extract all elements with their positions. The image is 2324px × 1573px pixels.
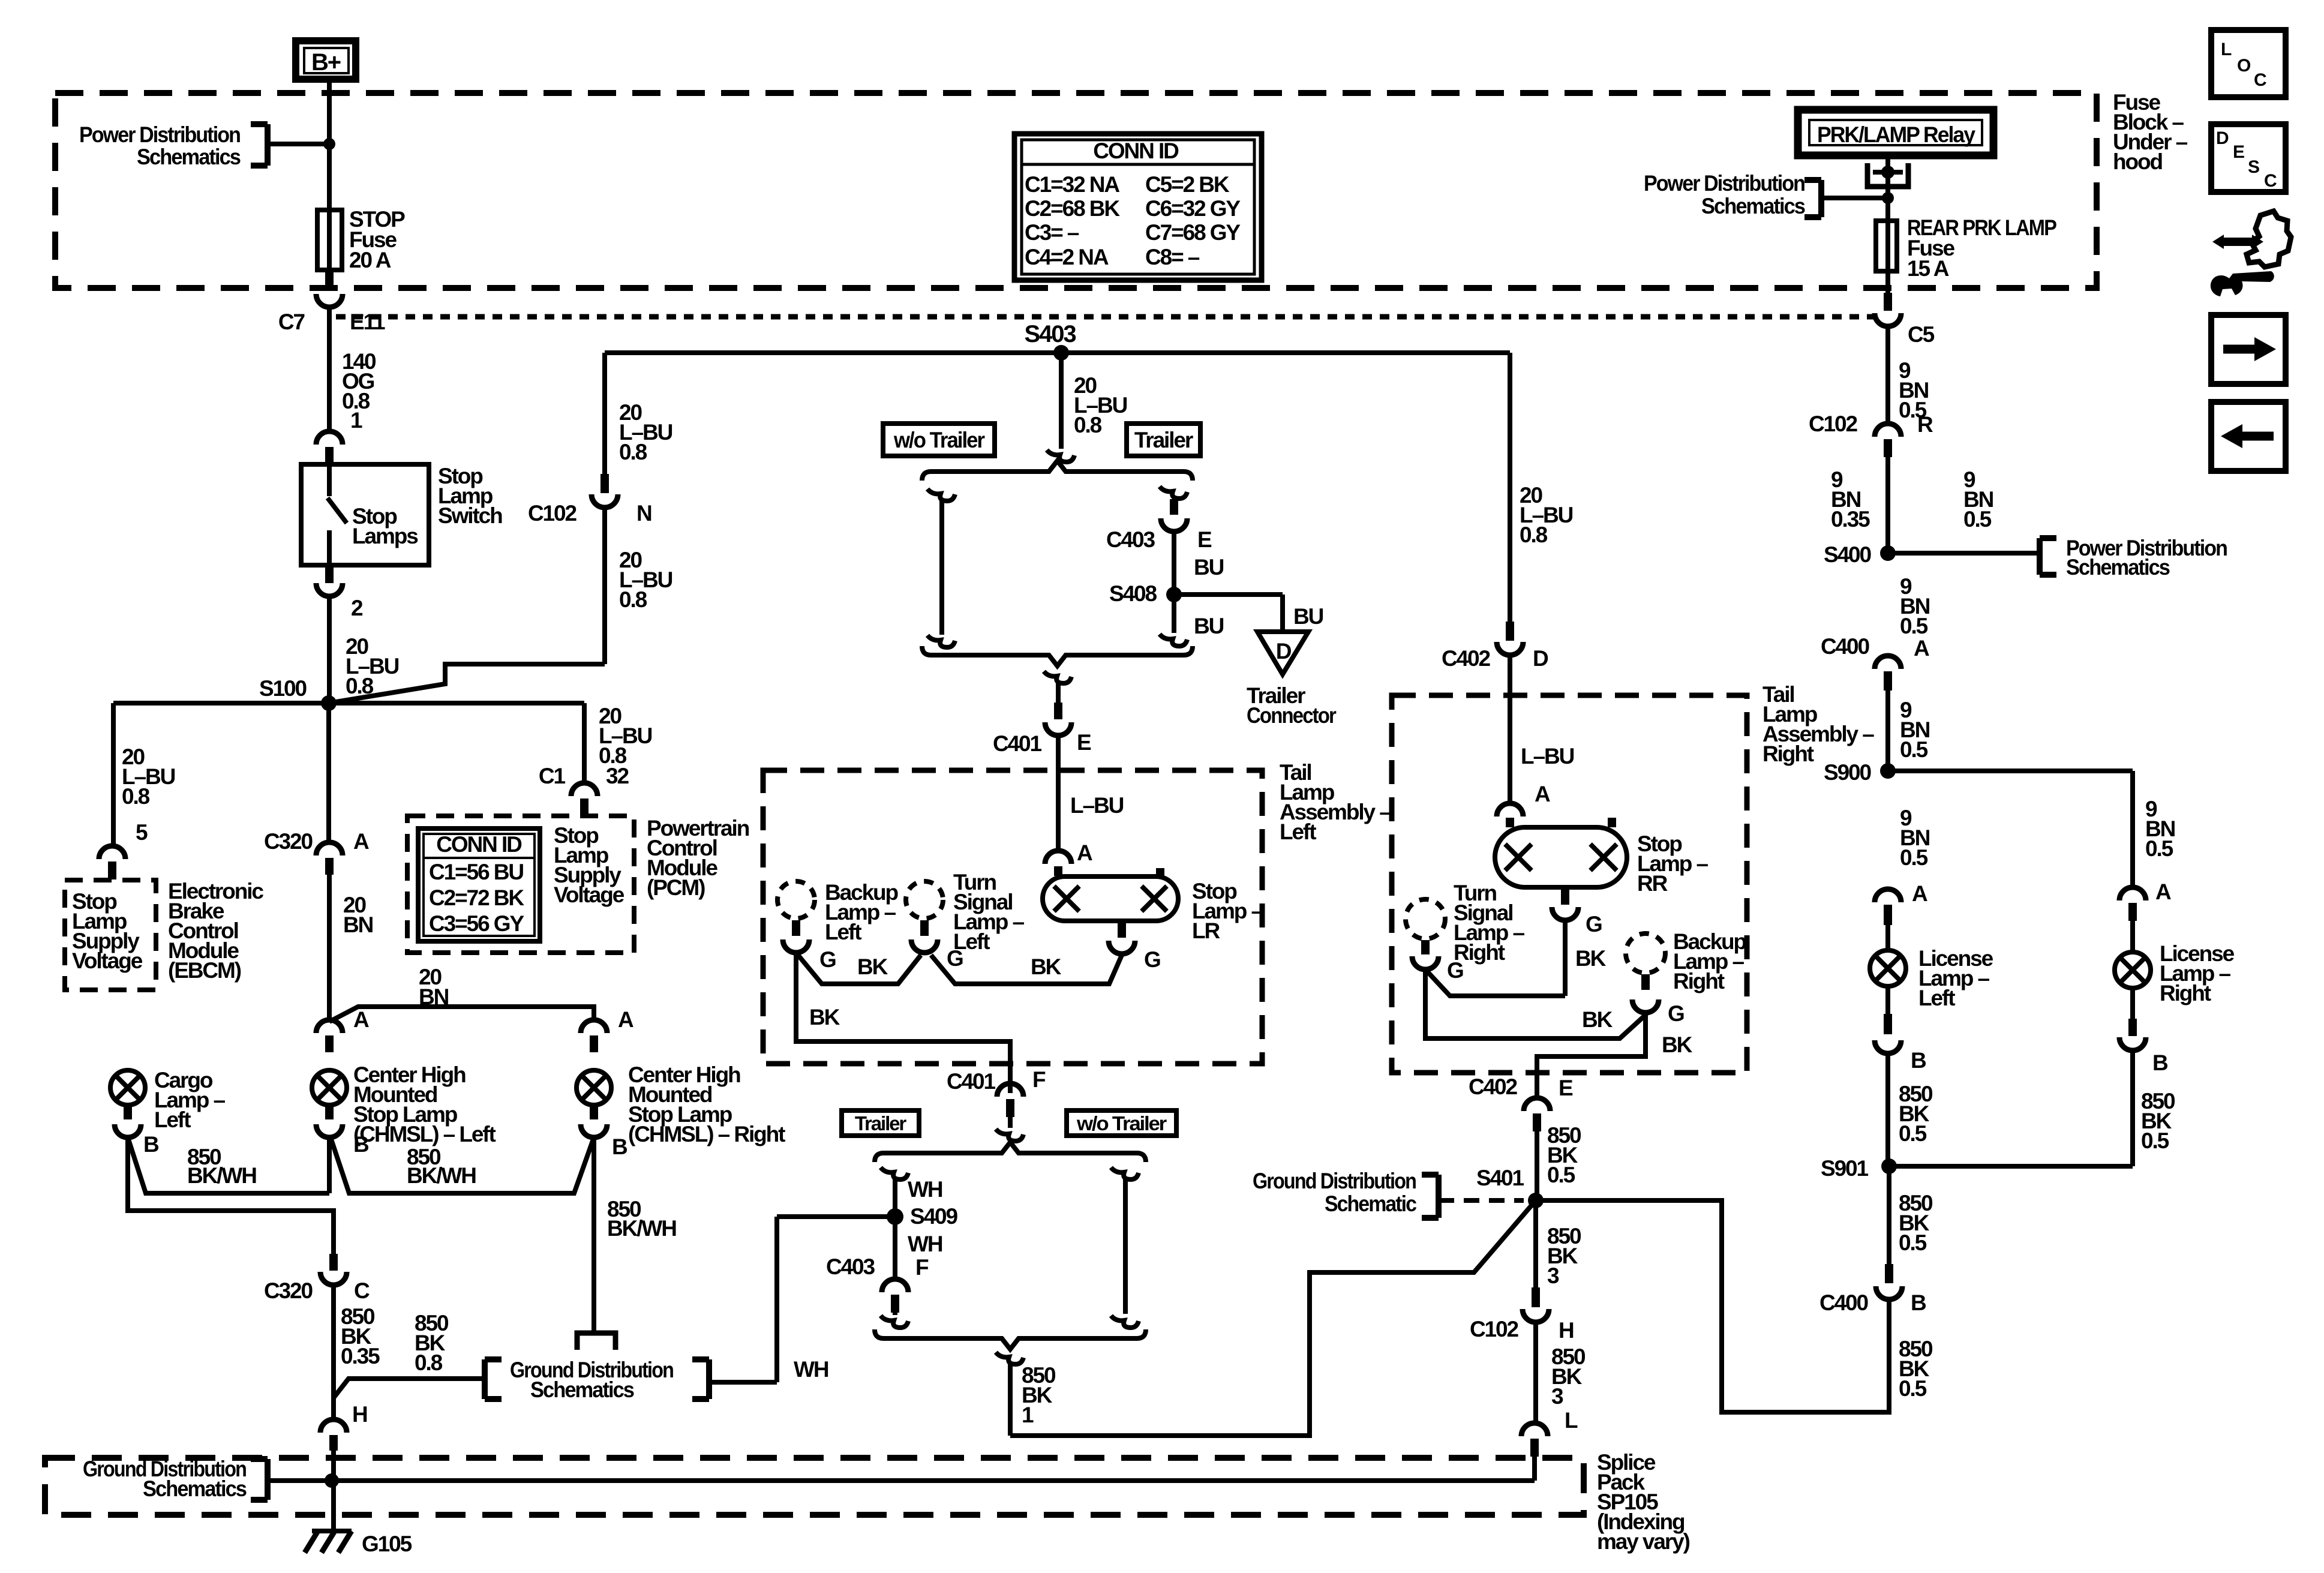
svg-text:0.8: 0.8 [1074,413,1102,437]
svg-text:C6=32 GY: C6=32 GY [1145,196,1241,221]
svg-text:L: L [1565,1408,1578,1433]
svg-text:C1=32 NA: C1=32 NA [1025,172,1119,197]
svg-text:Lamps: Lamps [352,524,418,548]
svg-text:Switch: Switch [438,503,502,528]
svg-text:S900: S900 [1824,760,1872,785]
svg-text:C403: C403 [1106,527,1155,552]
svg-text:G105: G105 [362,1532,412,1556]
svg-text:RR: RR [1637,871,1668,896]
svg-text:(PCM): (PCM) [647,875,705,900]
svg-text:A: A [1912,881,1927,906]
svg-text:B: B [612,1134,627,1159]
svg-text:F: F [1032,1067,1046,1092]
svg-text:Trailer: Trailer [1134,428,1193,452]
svg-text:C8= –: C8= – [1145,245,1200,269]
svg-text:D: D [1276,639,1292,664]
svg-text:BK/WH: BK/WH [407,1163,476,1188]
svg-text:0.8: 0.8 [122,784,150,809]
svg-text:0.5: 0.5 [2141,1128,2169,1153]
svg-text:B: B [143,1132,159,1157]
svg-text:0.5: 0.5 [1900,737,1928,762]
svg-text:E: E [1197,527,1212,552]
svg-text:B: B [1911,1290,1926,1315]
svg-text:B+: B+ [311,49,341,76]
svg-text:CONN ID: CONN ID [436,832,522,857]
svg-text:0.35: 0.35 [1831,507,1870,532]
svg-text:C102: C102 [528,501,577,526]
svg-text:1: 1 [1022,1403,1034,1427]
svg-text:(CHMSL) – Left: (CHMSL) – Left [353,1122,496,1146]
svg-text:E11: E11 [350,310,385,334]
svg-text:0.5: 0.5 [1547,1163,1575,1187]
svg-text:BU: BU [1293,604,1323,629]
svg-text:0.5: 0.5 [1899,1230,1927,1255]
svg-text:A: A [618,1007,633,1032]
svg-text:S400: S400 [1824,542,1872,567]
svg-text:E: E [1077,730,1091,755]
svg-text:Trailer: Trailer [855,1112,907,1134]
svg-text:L: L [2221,40,2232,59]
svg-text:0.8: 0.8 [1520,523,1548,547]
svg-text:0.8: 0.8 [415,1350,443,1375]
svg-text:3: 3 [1547,1263,1559,1288]
svg-text:C5=2 BK: C5=2 BK [1145,172,1230,197]
svg-text:G: G [1144,947,1160,972]
svg-text:Ground Distribution: Ground Distribution [1253,1169,1416,1193]
svg-text:C102: C102 [1809,412,1858,436]
svg-text:w/o Trailer: w/o Trailer [893,428,985,452]
svg-text:N: N [636,501,651,526]
svg-text:0.8: 0.8 [619,440,647,464]
svg-text:0.8: 0.8 [619,587,647,612]
svg-text:Left: Left [154,1107,191,1132]
svg-text:S403: S403 [1024,321,1076,347]
svg-text:E: E [2233,142,2244,162]
svg-text:20 A: 20 A [349,248,391,272]
svg-text:hood: hood [2113,149,2163,174]
svg-text:C: C [354,1278,370,1303]
svg-text:C7=68 GY: C7=68 GY [1145,220,1241,245]
svg-text:Right: Right [1673,969,1725,993]
svg-text:0.5: 0.5 [1900,845,1928,870]
svg-text:w/o Trailer: w/o Trailer [1076,1112,1167,1134]
svg-text:H: H [352,1402,367,1427]
svg-text:0.5: 0.5 [2145,836,2173,861]
svg-text:0.35: 0.35 [341,1344,380,1368]
svg-text:C3=56 GY: C3=56 GY [429,911,524,936]
svg-text:LR: LR [1192,918,1220,943]
svg-text:D: D [2216,128,2229,148]
svg-text:D: D [1533,646,1548,671]
svg-text:R: R [1917,412,1933,437]
svg-text:BK: BK [1662,1032,1693,1057]
svg-text:BK/WH: BK/WH [607,1216,676,1241]
svg-text:C320: C320 [264,1278,313,1303]
svg-text:WH: WH [908,1177,942,1202]
svg-text:Schematics: Schematics [1701,194,1805,218]
svg-text:S401: S401 [1476,1166,1524,1190]
svg-text:1: 1 [350,408,362,433]
svg-text:C320: C320 [264,829,313,854]
svg-text:BK: BK [1031,954,1062,979]
svg-text:C1: C1 [539,764,566,788]
svg-text:BK: BK [1582,1007,1613,1032]
svg-text:Schematics: Schematics [137,145,241,169]
svg-text:G: G [1586,912,1602,936]
svg-text:BK: BK [809,1005,840,1029]
svg-text:Schematics: Schematics [143,1476,247,1501]
svg-text:F: F [915,1255,929,1280]
svg-text:Connector: Connector [1247,703,1337,728]
svg-text:BU: BU [1194,555,1224,580]
svg-text:(CHMSL) – Right: (CHMSL) – Right [628,1122,785,1146]
svg-text:E: E [1559,1076,1573,1100]
svg-text:C403: C403 [826,1254,875,1279]
svg-text:Schematics: Schematics [2066,555,2170,580]
svg-text:O: O [2237,56,2251,76]
svg-text:Power Distribution: Power Distribution [1644,171,1804,196]
svg-text:Left: Left [1280,819,1316,844]
svg-text:CONN ID: CONN ID [1093,139,1179,163]
svg-text:C102: C102 [1470,1317,1519,1341]
svg-text:A: A [1077,840,1092,865]
svg-text:A: A [353,829,369,854]
svg-text:C: C [2264,171,2277,191]
svg-text:C402: C402 [1442,646,1491,671]
svg-text:L–BU: L–BU [1070,793,1124,818]
svg-text:BN: BN [343,912,373,937]
svg-text:A: A [1535,782,1550,806]
svg-text:S408: S408 [1109,581,1157,606]
svg-text:C4=2 NA: C4=2 NA [1025,245,1109,269]
svg-text:S409: S409 [910,1204,958,1229]
svg-text:C401: C401 [947,1069,996,1094]
svg-text:Left: Left [1918,986,1955,1010]
svg-text:Left: Left [953,929,990,954]
svg-text:C401: C401 [993,731,1042,756]
svg-text:A: A [1914,636,1929,661]
svg-text:S901: S901 [1821,1156,1869,1181]
svg-text:C7: C7 [278,310,305,334]
svg-text:C1=56 BU: C1=56 BU [429,860,523,884]
svg-text:C5: C5 [1908,322,1935,347]
svg-text:B: B [2152,1050,2168,1075]
svg-text:S100: S100 [259,676,307,701]
svg-text:BK: BK [1575,946,1607,971]
svg-text:Voltage: Voltage [554,882,624,907]
svg-text:5: 5 [136,820,148,845]
svg-text:WH: WH [908,1232,942,1256]
svg-text:Right: Right [1454,940,1505,965]
svg-text:H: H [1559,1318,1574,1343]
svg-text:L–BU: L–BU [1521,744,1574,769]
svg-text:C: C [2254,70,2266,90]
svg-text:A: A [2155,879,2171,904]
svg-text:A: A [353,1007,369,1032]
svg-text:Left: Left [825,920,861,944]
svg-text:S: S [2248,157,2259,177]
svg-text:0.5: 0.5 [1899,1376,1927,1401]
svg-text:G: G [1668,1001,1684,1026]
svg-text:0.8: 0.8 [599,743,627,768]
svg-text:Right: Right [1762,742,1814,766]
svg-text:Voltage: Voltage [72,948,143,973]
svg-text:(EBCM): (EBCM) [168,958,241,983]
svg-text:C3= –: C3= – [1025,220,1079,245]
svg-text:G: G [819,947,836,972]
svg-text:WH: WH [794,1357,828,1382]
svg-text:BN: BN [419,984,449,1009]
svg-text:Schematics: Schematics [530,1377,634,1402]
svg-text:0.5: 0.5 [1899,1121,1927,1146]
svg-text:C400: C400 [1821,634,1870,659]
svg-text:2: 2 [351,596,363,620]
svg-text:PRK/LAMP Relay: PRK/LAMP Relay [1817,122,1975,147]
svg-text:3: 3 [1551,1384,1563,1409]
svg-text:BK: BK [857,954,888,979]
svg-text:C2=72 BK: C2=72 BK [429,885,524,910]
svg-text:0.5: 0.5 [1900,614,1928,638]
svg-text:B: B [1911,1048,1926,1073]
svg-text:15 A: 15 A [1907,256,1949,281]
svg-text:0.5: 0.5 [1963,507,1992,532]
svg-text:Power Distribution: Power Distribution [79,122,240,147]
svg-text:C2=68 BK: C2=68 BK [1025,196,1120,221]
svg-text:BU: BU [1194,614,1224,638]
svg-text:BK/WH: BK/WH [187,1163,256,1188]
svg-text:C402: C402 [1469,1074,1518,1099]
svg-text:may vary): may vary) [1597,1529,1690,1554]
svg-text:Schematic: Schematic [1325,1191,1416,1216]
svg-text:Right: Right [2160,981,2211,1005]
svg-text:C400: C400 [1819,1290,1869,1315]
